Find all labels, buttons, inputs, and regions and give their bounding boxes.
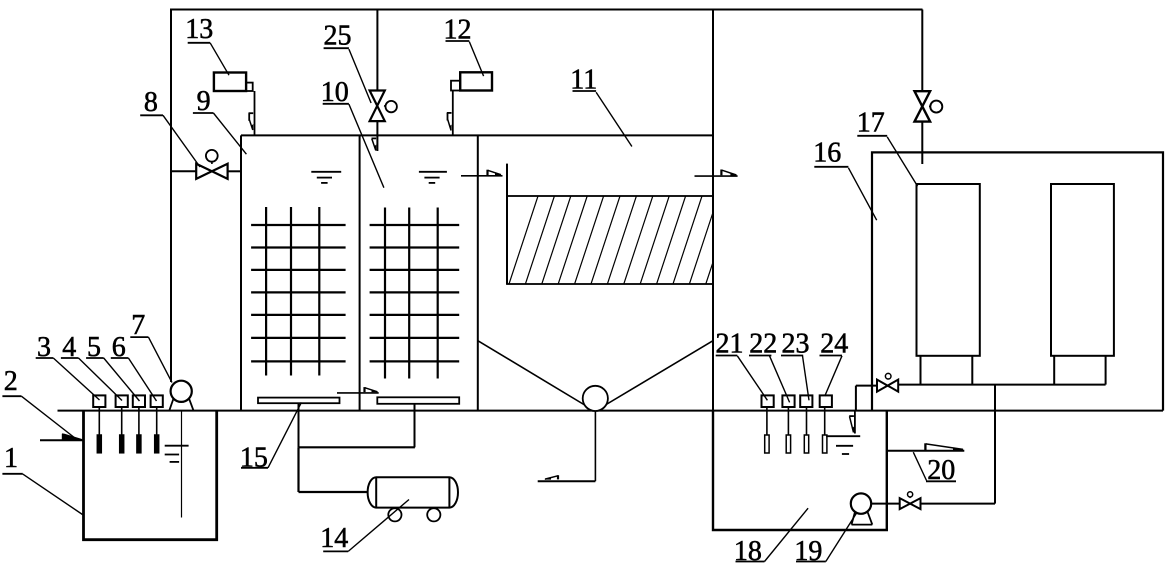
pipe: air header	[299, 446, 415, 448]
valve: pump 19 discharge	[900, 492, 921, 509]
label 8	[140, 87, 200, 167]
sludge scraper	[583, 386, 608, 411]
label 4	[61, 332, 122, 401]
transfer tank10-clarifier weir	[461, 175, 503, 177]
label 7	[130, 310, 172, 383]
label 18	[734, 508, 808, 567]
flow arrow: sludge out	[544, 475, 558, 479]
pump 7 suction pipe	[181, 411, 183, 518]
sensor probes 21-24	[765, 407, 827, 453]
label 22	[749, 328, 790, 402]
svg-text:13: 13	[185, 14, 213, 45]
outlet pipe 20	[887, 450, 965, 452]
pipe: manifold drop to pump line	[994, 385, 996, 504]
label 17	[857, 107, 918, 186]
blower wheels	[388, 508, 440, 521]
water level tank 10	[419, 172, 447, 183]
sensors 3-6 housings	[93, 395, 163, 407]
pipe: riser to membrane tank valve	[921, 10, 923, 92]
pipe: sludge drain	[538, 411, 596, 481]
flow arrow: final outlet 20	[925, 443, 964, 450]
sensors 21-24 housings	[762, 395, 832, 407]
flow arrow: clarifier outlet	[721, 170, 737, 176]
membrane tank 16 walls	[872, 152, 1163, 410]
pipe: main ground line	[58, 410, 1164, 412]
feeder 12	[451, 72, 492, 90]
blower 14 body	[368, 477, 458, 507]
label 13	[185, 14, 229, 75]
pipe: branch to valve 8	[171, 170, 241, 172]
svg-text:8: 8	[144, 87, 158, 118]
pipe: permeate manifold	[898, 384, 1106, 386]
clarifier outlet weir	[695, 175, 738, 177]
pipe: feeder 12 drop	[452, 91, 454, 136]
flow arrow: feeder 13	[249, 113, 254, 130]
label 6	[111, 332, 157, 401]
label 15	[240, 402, 302, 473]
pipe: blower to header	[299, 447, 369, 492]
wall: tank 9 left	[240, 135, 242, 410]
label 10	[321, 77, 384, 188]
valve 17-inlet (top right)	[915, 91, 943, 121]
pipe: top header from pump 7 to membrane tank	[170, 9, 923, 11]
tank 1 walls	[84, 411, 217, 540]
clarifier hopper left slope	[478, 341, 591, 409]
flow arrow: tank10 to clarifier	[488, 170, 503, 176]
pipe: return to tank 18	[856, 386, 877, 411]
label 3	[36, 332, 100, 400]
flow arrow: tank9 to tank10	[365, 387, 379, 392]
label 23	[781, 328, 810, 400]
svg-text:16: 16	[813, 137, 841, 168]
flow arrow: feeder 12	[447, 113, 452, 131]
module pedestal right	[1054, 356, 1105, 385]
pipe: pump 19 discharge	[871, 503, 995, 505]
module pedestal left	[921, 356, 973, 385]
filler grid tank 10	[370, 208, 460, 379]
pipe: riser to valve 25	[376, 10, 378, 92]
svg-text:25: 25	[324, 20, 352, 51]
flow arrow: inlet 2	[62, 433, 82, 440]
pipe: into membrane tank	[921, 122, 923, 165]
valve: membrane return	[877, 373, 898, 391]
membrane module 17 (left)	[917, 184, 980, 356]
label 5	[86, 332, 139, 401]
label 24	[820, 328, 849, 396]
tank 18 walls	[713, 411, 887, 530]
label 1	[2, 443, 83, 515]
label 9	[193, 86, 247, 154]
water level tank 9	[311, 172, 341, 183]
label 16	[813, 137, 876, 220]
diffuser plate (tank 10)	[377, 397, 459, 404]
pipe: return outlet into tank 18	[854, 411, 856, 434]
pipe: plate riser tank 9	[298, 404, 300, 448]
label 21	[716, 328, 768, 400]
svg-text:1: 1	[4, 443, 18, 474]
label 25	[324, 20, 372, 103]
valve 8	[196, 150, 227, 179]
pipe: feeder 13 drop	[254, 91, 256, 135]
membrane module (right)	[1051, 184, 1114, 356]
pump 19	[851, 493, 873, 524]
label 20	[913, 452, 956, 486]
water level tank 18	[826, 436, 860, 454]
flow arrow: into tank 10	[372, 138, 377, 150]
svg-text:14: 14	[320, 523, 348, 554]
water level tank 1	[165, 446, 189, 462]
label 19	[794, 513, 856, 567]
diffuser plate 15 (tank 9)	[258, 398, 340, 404]
label 14	[320, 500, 409, 555]
clarifier hopper right slope	[600, 341, 714, 409]
clarifier inlet baffle	[506, 164, 508, 284]
transfer tank9-tank10 weir	[337, 392, 379, 394]
pump 7	[169, 381, 193, 411]
flow arrow: into tank 18	[849, 416, 854, 432]
valve 25	[370, 91, 397, 122]
label 11	[570, 64, 632, 146]
tank roof line (tanks 9,10, clarifier)	[241, 134, 713, 136]
wall: tank10/clarifier	[477, 135, 479, 410]
pipe: long wall x=713 (header down / clarifier wall / tank18 wall)	[712, 10, 714, 531]
svg-text:17: 17	[857, 107, 885, 138]
pipe: plate riser tank 10	[414, 404, 416, 448]
svg-text:2: 2	[4, 366, 18, 397]
filler grid tank 9	[251, 207, 346, 376]
pipe: valve 25 outlet into tank 10	[376, 121, 378, 151]
sensor probes 3-6	[97, 407, 158, 453]
label 2	[2, 366, 76, 439]
tube settler media 11 (hatched)	[507, 196, 735, 284]
feeder 13	[214, 73, 253, 92]
inlet pipe 2	[40, 439, 84, 441]
label 12	[444, 15, 484, 76]
pipe: pump 7 riser x=171	[170, 10, 172, 383]
wall: tank 9/10 middle	[359, 135, 361, 410]
